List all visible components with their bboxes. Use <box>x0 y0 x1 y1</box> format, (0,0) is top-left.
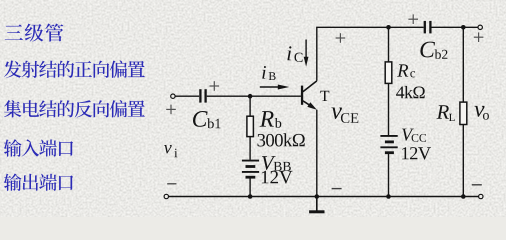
output terminal bottom <box>479 194 483 198</box>
label RL <box>437 105 455 121</box>
polarity - vCE bottom <box>332 188 342 190</box>
wire: Rc to VCC battery <box>388 83 390 135</box>
current arrow iB <box>260 86 281 88</box>
node VBB/bottom rail <box>248 194 253 199</box>
polarity - vi bottom <box>167 183 176 185</box>
wire: Rb to VBB battery <box>249 137 251 160</box>
label Rb value <box>258 133 305 146</box>
node VCC/bottom rail <box>386 194 391 199</box>
resistor RL body <box>460 102 467 124</box>
resistor Rc body <box>385 62 392 84</box>
wire: base node down to Rb <box>249 96 251 116</box>
label text 发射结的正向偏置 <box>4 60 145 77</box>
wire: bottom rail <box>169 196 479 198</box>
label Rc value <box>396 86 425 98</box>
polarity + Cb2 <box>408 14 418 24</box>
wire: top rail to Rc <box>388 27 390 62</box>
polarity + vi top <box>166 105 176 115</box>
label VCC <box>402 129 426 142</box>
polarity + vCE top <box>336 33 346 43</box>
node rail/RL junction <box>461 25 466 30</box>
label iB <box>262 66 275 80</box>
node base/Rb junction <box>248 94 253 99</box>
polarity - vo bottom <box>472 184 482 186</box>
wire: emitter vertical to bottom rail <box>316 110 318 197</box>
node rail/Rc junction <box>386 25 391 30</box>
label Rb <box>260 111 282 128</box>
label text 输入端口 <box>4 139 73 156</box>
label Cb2 <box>420 42 447 59</box>
node emitter/bottom rail <box>315 194 320 199</box>
polarity + vo top <box>474 32 484 42</box>
battery VCC <box>380 136 397 153</box>
wire: VCC battery to bottom rail <box>388 154 390 197</box>
resistor Rb body <box>247 116 254 136</box>
label Rc <box>397 64 415 77</box>
transistor T emitter lead with arrow <box>303 101 313 108</box>
label text 集电结的反向偏置 <box>4 100 145 117</box>
label vCE <box>331 108 358 123</box>
input terminal top <box>171 94 175 98</box>
label text 三级管 <box>5 23 64 41</box>
wire: top rail to RL <box>462 27 464 102</box>
polarity + Cb1 <box>210 81 220 91</box>
output terminal top <box>478 25 482 29</box>
label VBB value <box>262 171 293 184</box>
wire: top rail from Cb2 right plate to output terminal <box>432 26 479 28</box>
node RL/bottom rail <box>461 194 466 199</box>
label vi <box>164 145 177 157</box>
wire: VBB battery to bottom rail <box>249 178 251 197</box>
transistor T (NPN) base bar <box>301 86 303 105</box>
label T <box>320 91 329 101</box>
label VBB <box>262 156 291 171</box>
transistor T collector lead <box>303 81 317 92</box>
capacitor Cb2 <box>425 21 431 34</box>
wire: Cb1 to transistor base <box>207 95 301 97</box>
label iC <box>287 46 302 62</box>
input terminal bottom <box>164 194 168 198</box>
ground <box>316 197 318 211</box>
wire: collector vertical and top rail to Cb2 left plate <box>317 27 424 81</box>
label text 输出端口 <box>4 173 73 190</box>
capacitor Cb1 <box>200 89 205 102</box>
label vo <box>474 106 489 120</box>
wire: input top from terminal to Cb1 <box>175 95 199 97</box>
wire: RL to bottom rail <box>462 125 464 197</box>
label Cb1 <box>193 111 221 128</box>
current arrow iC <box>305 40 307 60</box>
battery VBB <box>242 161 259 178</box>
label VCC value <box>402 147 431 160</box>
